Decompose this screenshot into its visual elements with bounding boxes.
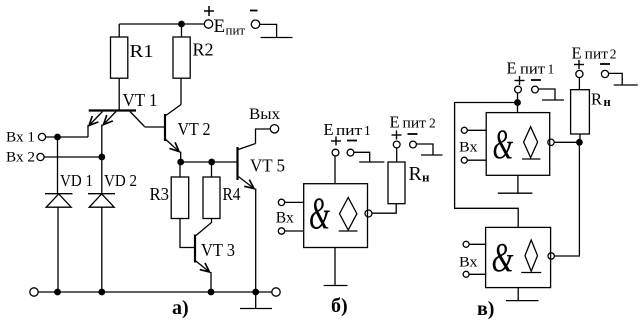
terminal -Epit2 v xyxy=(601,70,608,77)
terminal +Epit1 v xyxy=(515,86,522,93)
terminal +Epit circle xyxy=(204,20,212,28)
terminal Vh2 circle xyxy=(37,153,44,160)
wire U1 input stubs xyxy=(285,202,304,231)
power switch Epit2 b xyxy=(416,144,442,155)
transistor VT1 multi-emitter xyxy=(88,78,145,157)
power switch Epit1 b xyxy=(354,152,385,162)
wire top rail xyxy=(119,23,204,25)
node dot rail VD2 xyxy=(98,289,105,296)
transistor VT3 xyxy=(195,235,211,293)
wire v loop left xyxy=(455,103,519,228)
svg-text:Е: Е xyxy=(214,16,226,37)
gate U1 diamond xyxy=(340,198,357,231)
svg-text:VD 1: VD 1 xyxy=(60,171,93,190)
svg-text:Вх 1: Вх 1 xyxy=(6,130,35,146)
terminal +Epit1 b xyxy=(332,149,339,156)
ground a xyxy=(240,292,272,309)
svg-text:R: R xyxy=(409,163,423,185)
node dot Rn v xyxy=(576,139,583,146)
wire wired-AND vertical xyxy=(555,142,580,256)
node dot R4 xyxy=(208,159,215,166)
wire R3 bottom to VT3 base xyxy=(180,219,194,248)
wire DD1 output to Rn node xyxy=(554,141,579,143)
wire R4 top pin xyxy=(211,162,213,177)
svg-text:VT 1: VT 1 xyxy=(123,90,158,110)
svg-text:1: 1 xyxy=(548,62,555,77)
terminal DD2 input2 xyxy=(463,271,469,277)
gate DD2 box xyxy=(486,227,551,287)
svg-text:Вх: Вх xyxy=(459,140,478,156)
wire Rn top pin v xyxy=(578,78,580,90)
node dot v top xyxy=(514,99,521,106)
svg-text:&: & xyxy=(309,190,330,240)
gate DD2 ground xyxy=(506,288,539,301)
gate DD1 output circle xyxy=(548,139,554,145)
svg-text:R3: R3 xyxy=(150,184,170,204)
wire input2 xyxy=(44,156,102,158)
gate U1 diamond underline xyxy=(339,230,358,232)
svg-text:VT 2: VT 2 xyxy=(178,119,211,139)
wire DD1 top pin xyxy=(517,93,519,113)
minus sign Epit2 b xyxy=(408,133,418,135)
svg-text:Вых: Вых xyxy=(249,106,280,123)
svg-text:пит: пит xyxy=(226,23,246,38)
diode VD2 xyxy=(88,157,115,292)
wire Rn top pin b xyxy=(396,148,398,162)
svg-text:Е: Е xyxy=(390,113,400,132)
terminal Vh1 circle xyxy=(38,133,45,140)
diode VD1 xyxy=(45,137,73,292)
gate DD2 diamond xyxy=(525,240,538,271)
svg-text:VT 3: VT 3 xyxy=(201,240,235,260)
terminal bottom-left circle xyxy=(30,288,38,296)
wire R1 top pin xyxy=(118,24,120,37)
label Rn b xyxy=(409,163,431,185)
plus sign Epit xyxy=(204,6,214,16)
minus sign Epit1 v xyxy=(531,79,541,81)
wire node line y162 xyxy=(181,161,238,163)
label Epit1 v xyxy=(507,59,555,78)
resistor R4 xyxy=(203,177,220,219)
resistor R1 xyxy=(111,37,128,78)
svg-text:VT 5: VT 5 xyxy=(250,156,285,176)
svg-text:1: 1 xyxy=(364,123,371,138)
svg-text:н: н xyxy=(422,170,430,185)
svg-text:Вх: Вх xyxy=(276,210,294,227)
node dot input1 xyxy=(54,134,61,141)
node dot rail VD1 xyxy=(54,289,61,296)
svg-text:Е: Е xyxy=(324,120,334,139)
terminal -Epit circle xyxy=(251,20,259,28)
svg-text:Е: Е xyxy=(572,43,582,62)
minus sign Epit xyxy=(250,10,258,12)
power switch a xyxy=(260,24,293,37)
power switch Epit2 v xyxy=(609,73,638,85)
svg-text:а): а) xyxy=(172,297,189,319)
wire DD1 input stubs xyxy=(467,130,486,160)
svg-text:&: & xyxy=(493,122,514,169)
gate DD2 output circle xyxy=(548,253,554,259)
svg-text:R4: R4 xyxy=(223,184,241,204)
wire U1 top pin xyxy=(334,156,336,184)
gate DD1 box xyxy=(486,113,550,176)
svg-text:Е: Е xyxy=(507,59,517,78)
plus sign Epit1 b xyxy=(331,137,341,146)
transistor VT5 xyxy=(238,129,271,292)
terminal U1 input1 xyxy=(278,199,284,205)
label Epit xyxy=(214,16,246,38)
node dot rail VT3 xyxy=(208,289,215,296)
wire input1 xyxy=(46,136,88,138)
resistor R2 xyxy=(173,37,190,78)
terminal -Epit2 b xyxy=(410,141,417,148)
wire U1 bottom pin xyxy=(334,248,336,286)
label Epit2 v xyxy=(572,43,617,62)
resistor Rn b xyxy=(388,162,405,204)
gate U1 output circle xyxy=(365,210,372,217)
svg-text:пит: пит xyxy=(520,62,545,78)
svg-text:б): б) xyxy=(331,295,348,317)
wire R4 bottom to VT3 collector xyxy=(196,219,212,236)
terminal +Epit2 v xyxy=(576,70,583,77)
resistor Rn v xyxy=(571,90,590,134)
plus sign Epit2 b xyxy=(392,131,402,140)
svg-text:пит: пит xyxy=(336,123,362,139)
svg-text:R1: R1 xyxy=(130,41,154,61)
node top rail junction xyxy=(178,21,185,28)
terminal -Epit1 b xyxy=(347,149,354,156)
terminal DD1 input1 xyxy=(461,127,467,133)
label Epit2 b xyxy=(390,113,436,132)
plus sign Epit2 v xyxy=(574,60,584,69)
terminal U1 input2 xyxy=(278,228,284,234)
terminal bottom-right circle xyxy=(272,288,280,296)
terminal DD2 input1 xyxy=(463,241,469,247)
svg-text:VD 2: VD 2 xyxy=(104,171,137,190)
wire U1 output to Rn xyxy=(372,204,396,214)
node dot R3 xyxy=(177,159,184,166)
svg-text:н: н xyxy=(604,95,611,109)
gate DD2 diamond underline xyxy=(521,272,541,274)
terminal -Epit1 v xyxy=(532,86,539,93)
gate DD1 ground xyxy=(498,175,533,193)
svg-text:&: & xyxy=(491,234,513,281)
svg-text:R: R xyxy=(591,90,602,109)
gate U1 box xyxy=(304,184,368,248)
wire bottom rail xyxy=(38,291,271,293)
svg-text:2: 2 xyxy=(610,46,617,61)
label Epit1 b xyxy=(324,120,371,139)
svg-text:Вх: Вх xyxy=(459,255,478,271)
svg-text:Вх 2: Вх 2 xyxy=(6,150,35,166)
wire DD2 input stubs xyxy=(469,244,486,274)
transistor VT2 xyxy=(145,78,182,162)
svg-text:R2: R2 xyxy=(193,40,214,60)
terminal DD1 input2 xyxy=(461,157,467,163)
gate DD1 diamond underline xyxy=(522,158,540,160)
label Rn v xyxy=(591,90,611,110)
svg-text:2: 2 xyxy=(429,116,436,131)
wire Rn bottom pin v xyxy=(579,134,581,142)
terminal +Epit2 b xyxy=(393,141,400,148)
minus sign Epit1 b xyxy=(347,140,357,142)
resistor R3 xyxy=(171,177,189,219)
node dot input2 xyxy=(98,154,105,161)
wire R2 top pin xyxy=(181,24,183,37)
svg-text:пит: пит xyxy=(585,46,609,62)
power switch Epit1 v xyxy=(538,89,564,100)
terminal Vyh circle xyxy=(270,125,278,133)
plus sign Epit1 v xyxy=(515,76,525,85)
wire R3 top pin xyxy=(179,162,181,177)
svg-text:в): в) xyxy=(477,298,494,320)
gate DD1 diamond xyxy=(524,127,538,158)
ground b xyxy=(324,285,348,287)
svg-text:пит: пит xyxy=(403,116,427,132)
node dot rail VT5 xyxy=(252,289,259,296)
minus sign Epit2 v xyxy=(600,63,610,65)
